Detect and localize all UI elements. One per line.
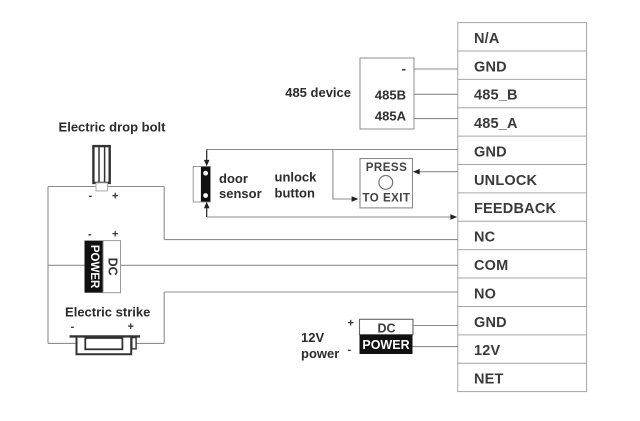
- wire UNLOCK to button: [419, 171, 458, 173]
- drop bolt tip: [96, 183, 107, 191]
- 485 device box U2: [360, 58, 414, 129]
- svg-text:TO EXIT: TO EXIT: [362, 192, 410, 204]
- DC power PS1 white half: [103, 241, 120, 293]
- svg-text:+: +: [128, 321, 134, 333]
- door sensor S1: [193, 167, 210, 203]
- terminal block J1: [458, 23, 587, 392]
- svg-text:GND: GND: [474, 59, 507, 75]
- wire 12V power to GND: [413, 325, 458, 327]
- svg-text:-: -: [402, 61, 406, 76]
- svg-text:-: -: [348, 344, 352, 356]
- 12V power DC box: [360, 319, 414, 334]
- arrowhead into FEEDBACK: [450, 214, 457, 220]
- svg-text:NET: NET: [474, 372, 504, 388]
- svg-text:Electric drop bolt: Electric drop bolt: [59, 120, 167, 135]
- svg-text:485_B: 485_B: [474, 88, 518, 104]
- wire door sensor to GND: [207, 149, 458, 151]
- arrow into door sensor bottom: [206, 208, 208, 218]
- svg-text:door: door: [219, 171, 248, 186]
- svg-text:-: -: [89, 190, 93, 202]
- svg-text:12V: 12V: [301, 330, 324, 345]
- wire strike to right bus: [136, 342, 164, 344]
- wire 485(-) to GND: [414, 68, 458, 70]
- svg-text:NO: NO: [474, 286, 496, 302]
- button circle: [379, 176, 393, 190]
- svg-text:-: -: [88, 229, 92, 241]
- arrowhead into button right: [413, 169, 420, 175]
- svg-text:+: +: [112, 191, 118, 203]
- svg-text:NC: NC: [474, 230, 496, 246]
- wire to NC: [164, 239, 458, 241]
- DC power PS1 black half: [85, 241, 104, 293]
- svg-text:485 device: 485 device: [285, 85, 351, 100]
- arrowhead into TO EXIT: [352, 196, 359, 202]
- wire door sensor to FEEDBACK: [207, 216, 451, 218]
- svg-text:Electric strike: Electric strike: [65, 305, 150, 320]
- unlock button box S2: [360, 159, 413, 208]
- svg-text:COM: COM: [474, 258, 508, 274]
- wire DC power to COM: [121, 264, 458, 266]
- svg-text:GND: GND: [474, 315, 507, 331]
- svg-text:GND: GND: [474, 144, 507, 160]
- electric strike body: [70, 335, 141, 337]
- svg-text:+: +: [112, 229, 118, 241]
- svg-text:12V: 12V: [474, 343, 501, 359]
- wire 12V power to 12V: [413, 346, 458, 348]
- wire right bus upper: [163, 187, 165, 240]
- svg-text:485A: 485A: [375, 108, 407, 123]
- svg-text:+: +: [348, 318, 354, 330]
- svg-text:power: power: [301, 346, 339, 361]
- electric drop bolt body: [93, 146, 109, 183]
- svg-text:unlock: unlock: [275, 170, 318, 185]
- wire to NO: [164, 291, 458, 293]
- wire branch to exit button: [333, 150, 352, 200]
- wire 485A to 485_A: [414, 118, 458, 120]
- arrow into door sensor top: [206, 150, 208, 161]
- svg-text:485B: 485B: [375, 88, 406, 103]
- 12V power POWER box: [360, 335, 413, 354]
- svg-text:FEEDBACK: FEEDBACK: [474, 201, 556, 217]
- wire right bus lower: [163, 292, 165, 343]
- svg-text:DC: DC: [106, 258, 120, 276]
- svg-text:button: button: [275, 186, 315, 201]
- wire bus to strike: [48, 342, 77, 344]
- svg-text:sensor: sensor: [219, 186, 262, 201]
- 485 device pin labels: [375, 61, 407, 123]
- svg-text:N/A: N/A: [474, 31, 500, 47]
- wire bus to DC power: [48, 264, 85, 266]
- svg-text:DC: DC: [377, 321, 395, 335]
- svg-text:485_A: 485_A: [474, 116, 518, 132]
- wire left bus: [47, 187, 49, 344]
- strike latch: [132, 338, 136, 349]
- wire drop bolt horizontal: [48, 186, 164, 188]
- svg-text:POWER: POWER: [362, 338, 409, 352]
- wire 485B to 485_B: [414, 93, 458, 95]
- svg-text:PRESS: PRESS: [366, 162, 408, 174]
- terminal labels: [474, 31, 556, 388]
- svg-text:POWER: POWER: [88, 245, 100, 289]
- svg-text:-: -: [71, 321, 75, 333]
- svg-text:UNLOCK: UNLOCK: [474, 173, 538, 189]
